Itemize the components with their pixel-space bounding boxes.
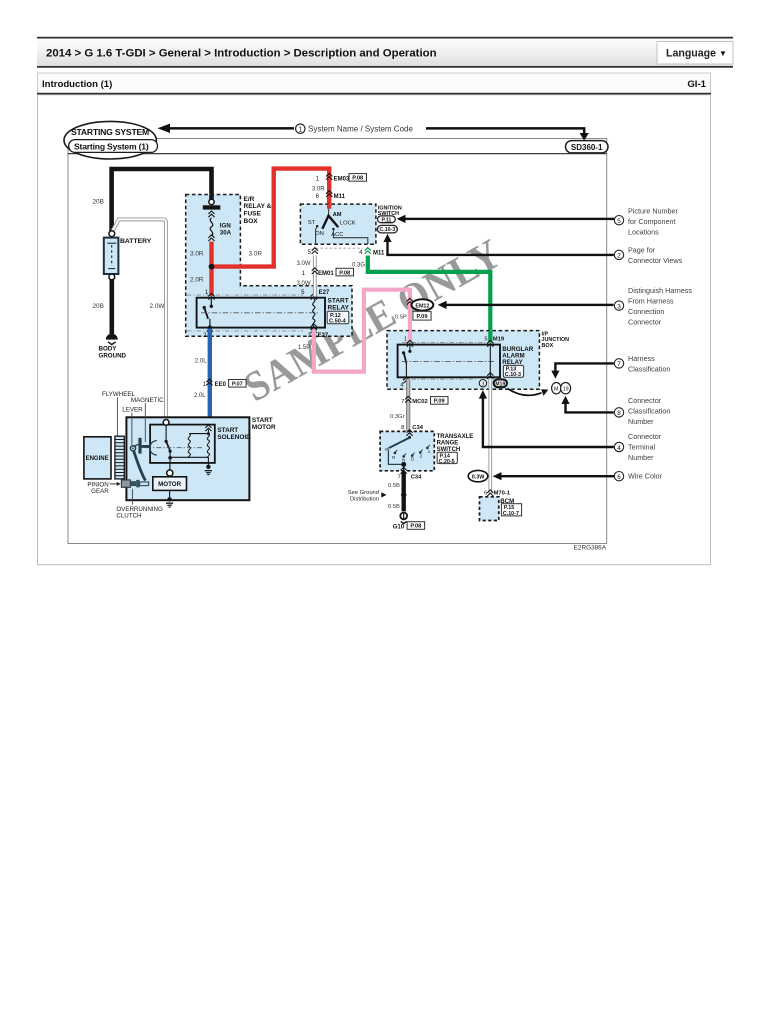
svg-text:3.0R: 3.0R: [190, 251, 204, 258]
svg-text:C34: C34: [411, 474, 422, 480]
svg-text:Connector: Connector: [628, 432, 662, 441]
svg-text:C.10-7: C.10-7: [503, 511, 519, 517]
svg-text:CLUTCH: CLUTCH: [116, 513, 141, 520]
svg-text:20B: 20B: [93, 199, 104, 206]
callout 5 circle: [614, 216, 623, 225]
svg-text:LEVER: LEVER: [122, 407, 143, 414]
junction node: [209, 264, 215, 270]
callout 8 circle: [614, 408, 623, 417]
relay BURGLAR ALARM RELAY box: [398, 345, 500, 378]
callout 5: picture number leader: [405, 218, 615, 220]
contacts ST LOCK ACC: [316, 225, 318, 227]
relay internal dash-dot line: [201, 312, 318, 314]
label box P.14 C.20-5: [437, 452, 457, 463]
ignition connector row (dashed gray): [316, 247, 363, 249]
solenoid contact from 2.0W: [163, 420, 169, 426]
svg-text:EM03: EM03: [334, 176, 350, 182]
wire 2.0W battery to start motor (white): [113, 219, 166, 419]
node 1 circle: [296, 124, 305, 133]
svg-text:2.0W: 2.0W: [150, 303, 166, 310]
inner diagram frame: [68, 139, 607, 544]
svg-text:EE0: EE0: [215, 382, 227, 388]
svg-text:Terminal: Terminal: [628, 443, 656, 452]
svg-text:BOX: BOX: [244, 218, 259, 225]
svg-text:Distribution: Distribution: [350, 497, 379, 503]
wire color oval 0.3W: [468, 470, 488, 481]
arrow to SD360-1: [426, 128, 584, 134]
svg-text:20B: 20B: [93, 303, 104, 310]
svg-text:Classification: Classification: [628, 365, 670, 374]
svg-text:2.0L: 2.0L: [195, 358, 207, 364]
svg-text:7: 7: [401, 399, 404, 405]
svg-text:START: START: [252, 417, 273, 424]
label OVERRUNNING CLUTCH + leader: [131, 489, 133, 505]
svg-text:M19: M19: [495, 381, 505, 387]
connector row dashes (burglar relay): [402, 341, 489, 343]
svg-text:P.08: P.08: [339, 270, 350, 276]
svg-text:0.5P: 0.5P: [395, 315, 407, 321]
svg-text:AM: AM: [333, 212, 342, 218]
svg-text:Connection: Connection: [628, 307, 664, 316]
svg-text:C.50-4: C.50-4: [329, 319, 347, 325]
svg-text:P.07: P.07: [232, 382, 243, 388]
svg-text:1: 1: [404, 337, 407, 343]
svg-text:Number: Number: [628, 417, 654, 426]
svg-text:Classification: Classification: [628, 407, 670, 416]
svg-text:EM12: EM12: [415, 303, 429, 309]
svg-text:C34: C34: [412, 425, 423, 431]
pinion gear: [121, 480, 130, 487]
svg-text:30A: 30A: [220, 229, 232, 236]
magnetic lever: [130, 446, 135, 451]
svg-text:1: 1: [298, 127, 302, 134]
ground G10 symbol: [400, 513, 407, 520]
svg-text:Connector: Connector: [628, 318, 662, 327]
pin chevron burglar pin1: [407, 340, 413, 346]
wire stub red into ignition switch: [327, 204, 331, 208]
svg-text:ST: ST: [308, 220, 316, 226]
pin 3 circled (terminal number highlight): [479, 380, 486, 387]
breadcrumb bar: [37, 38, 733, 67]
svg-text:P.08: P.08: [410, 524, 421, 530]
solenoid plunger: [138, 438, 141, 454]
svg-text:E/R: E/R: [244, 196, 255, 203]
ST wire to pin 5: [316, 227, 318, 245]
pin 6 M70-1: [487, 490, 493, 496]
wire 2.0L start relay pin2 to start solenoid (blue): [208, 329, 212, 427]
svg-text:EM01: EM01: [318, 271, 334, 277]
svg-text:8: 8: [617, 410, 621, 417]
svg-text:RELAY: RELAY: [328, 305, 350, 312]
svg-text:TRANSAXLE: TRANSAXLE: [437, 434, 474, 440]
solenoid dash-dot axis: [146, 447, 204, 449]
overrunning clutch parts: [130, 481, 136, 486]
motor ground: [169, 490, 171, 497]
callout 7: harness classification leader: [555, 363, 613, 371]
label box P.13 C.10-3: [503, 365, 523, 377]
svg-text:MOTOR: MOTOR: [252, 424, 276, 431]
ignition switch box (dashed): [300, 204, 376, 244]
burglar alarm relay box (dashed, I/P junction box): [387, 331, 539, 390]
motor MOTOR box: [153, 477, 187, 491]
svg-text:Locations: Locations: [628, 227, 659, 236]
ground distribution junction: [401, 492, 406, 497]
wire 3.0W ignition ST to relay coil (white): [313, 256, 317, 297]
svg-text:2014 > G 1.6 T-GDI > General >: 2014 > G 1.6 T-GDI > General > Introduct…: [46, 48, 437, 60]
oval SD360-1: [566, 141, 609, 153]
flywheel gear: [115, 436, 124, 479]
callout 3: distinguish harness leader: [446, 304, 614, 306]
label box P.15 C.10-7: [501, 504, 521, 516]
svg-text:P.08: P.08: [352, 176, 363, 182]
solenoid ground: [207, 457, 209, 464]
wire 20B battery(+) to IGN fuse (black thick): [112, 169, 212, 232]
svg-text:GI-1: GI-1: [687, 79, 706, 90]
svg-text:2: 2: [617, 253, 621, 260]
svg-text:LOCK: LOCK: [340, 221, 356, 227]
svg-text:G10: G10: [393, 524, 405, 530]
wire 3.0R fuse junction to ignition switch (red): [212, 169, 330, 267]
svg-text:3.0R: 3.0R: [312, 186, 325, 192]
harness classification ellipses M 19: [552, 383, 561, 394]
svg-text:M: M: [554, 387, 559, 393]
solenoid START SOLENOID box: [150, 425, 215, 463]
svg-text:M11: M11: [373, 250, 385, 256]
svg-text:E2RG386A: E2RG386A: [574, 545, 607, 552]
svg-text:4: 4: [617, 445, 621, 452]
svg-text:Connector: Connector: [628, 396, 662, 405]
svg-text:P.09: P.09: [434, 399, 445, 405]
solenoid coils: [207, 430, 209, 434]
transaxle range switch box (dashed): [380, 431, 434, 470]
svg-text:D: D: [411, 457, 415, 463]
relay internal dash-dot: [402, 361, 494, 363]
pin 7 C34: [401, 467, 407, 473]
motor START MOTOR box: [126, 417, 249, 500]
svg-text:BOX: BOX: [542, 343, 554, 349]
svg-text:Number: Number: [628, 453, 654, 462]
svg-text:0.3W: 0.3W: [472, 475, 485, 481]
svg-text:3.0W: 3.0W: [297, 261, 311, 267]
lever AM-ST: [322, 216, 328, 229]
wire 0.3W burglar relay pin3 to BCM (white): [488, 379, 492, 493]
relay coil side wire: [489, 345, 491, 377]
svg-text:5: 5: [617, 218, 621, 225]
ignition internal: AM node: [328, 205, 330, 216]
body ground symbol: [106, 334, 118, 340]
wire stub green into burglar relay: [488, 331, 492, 343]
language button: [657, 42, 733, 65]
svg-text:1.5P: 1.5P: [298, 345, 310, 351]
svg-text:Picture Number: Picture Number: [628, 206, 679, 215]
wire 0.3G ignition pin4 to burglar alarm relay (green): [368, 256, 491, 343]
connector EM12 (harness connection) on pink wire: [407, 298, 413, 304]
svg-text:7: 7: [397, 474, 400, 480]
svg-text:1: 1: [428, 449, 431, 455]
svg-text:Harness: Harness: [628, 354, 655, 363]
C.10-3 stadium: [378, 225, 398, 233]
wire 3.0R/2.0R fuse to start relay (red): [209, 242, 213, 297]
battery bottom terminal: [109, 274, 115, 280]
label box P.12 C.50-4: [327, 311, 349, 323]
callout 4: connector terminal number leader: [483, 398, 614, 447]
svg-text:ENGINE: ENGINE: [86, 456, 109, 462]
callout 4 circle: [614, 442, 623, 451]
svg-text:RELAY &: RELAY &: [244, 203, 272, 210]
svg-text:0.5B: 0.5B: [388, 483, 400, 489]
wire 0.3Gr burglar relay pin4 to transaxle switch (gray): [406, 379, 410, 431]
curved arrow M19 to harness ellipses: [508, 389, 542, 396]
svg-text:SD360-1: SD360-1: [571, 143, 603, 152]
svg-text:5: 5: [484, 337, 487, 343]
svg-text:3.0R: 3.0R: [249, 251, 263, 258]
svg-text:GEAR: GEAR: [91, 488, 109, 495]
svg-text:M11: M11: [334, 194, 346, 200]
svg-text:MC02: MC02: [412, 399, 427, 405]
svg-text:C.10-3: C.10-3: [505, 372, 521, 378]
svg-text:0.3G: 0.3G: [352, 262, 365, 268]
svg-text:Starting System (1): Starting System (1): [74, 142, 149, 152]
lever AM-LOCK: [329, 216, 338, 226]
svg-text:ON: ON: [315, 231, 324, 237]
wire 1.5P start relay pin3 to burglar relay pin1 (pink): [314, 290, 410, 372]
E/R relay &amp; fuse box (dashed): [186, 195, 352, 337]
svg-text:Distinguish Harness: Distinguish Harness: [628, 286, 692, 295]
svg-text:6: 6: [484, 491, 487, 497]
svg-text:START: START: [217, 427, 238, 434]
svg-text:C.10-3: C.10-3: [379, 227, 395, 233]
callout arrow to system name: [158, 124, 171, 133]
svg-text:8: 8: [401, 425, 404, 431]
ACC wire to pin 4: [333, 230, 367, 245]
position contacts P R N D 2 1: [394, 452, 397, 455]
svg-text:System Name / System Code: System Name / System Code: [308, 125, 413, 134]
svg-text:RANGE: RANGE: [437, 441, 459, 447]
svg-text:7: 7: [617, 361, 621, 368]
callout 2: page for connector views leader: [388, 240, 614, 255]
svg-text:P.11: P.11: [381, 217, 391, 223]
svg-text:Wire Color: Wire Color: [628, 472, 663, 481]
content box: [38, 95, 711, 565]
svg-text:SOLENOID: SOLENOID: [217, 434, 251, 441]
callout 7 circle: [614, 359, 623, 368]
svg-text:FUSE: FUSE: [244, 211, 262, 218]
svg-text:See Ground: See Ground: [348, 490, 379, 496]
callout 2 circle: [614, 250, 623, 259]
P.11 stadium: [378, 216, 396, 223]
svg-text:MOTOR: MOTOR: [158, 481, 181, 488]
engine ENGINE box: [84, 437, 111, 479]
svg-text:3.0W: 3.0W: [297, 281, 311, 287]
blue pin into solenoid: [205, 425, 211, 431]
svg-text:2.0R: 2.0R: [190, 277, 204, 284]
svg-text:2: 2: [420, 454, 423, 460]
fuse IGN 30A: [209, 199, 214, 204]
svg-text:E27: E27: [318, 333, 329, 339]
connector M19 stadium (dark): [494, 379, 507, 387]
svg-text:▼: ▼: [719, 49, 727, 58]
svg-text:From Harness: From Harness: [628, 297, 674, 306]
P contact path to output: [388, 450, 403, 465]
svg-text:GROUND: GROUND: [99, 352, 127, 359]
wire 0.5B to ground G10 (black): [402, 472, 406, 512]
svg-text:3: 3: [481, 382, 484, 388]
svg-text:6: 6: [617, 474, 621, 481]
motor terminal: [167, 470, 173, 476]
svg-text:STARTING SYSTEM: STARTING SYSTEM: [71, 127, 149, 137]
svg-text:C.20-5: C.20-5: [439, 459, 455, 465]
relay contact: [210, 298, 212, 306]
pin chevron burglar pin5: [487, 340, 493, 346]
svg-text:0.3Gr: 0.3Gr: [390, 414, 405, 420]
svg-text:R: R: [392, 455, 396, 461]
oval Starting System (1): [69, 140, 158, 153]
wire 20B battery(-) to body ground (black thick): [110, 280, 115, 334]
section bar: [38, 73, 711, 95]
switch lever: [408, 436, 411, 439]
svg-text:BATTERY: BATTERY: [120, 238, 152, 245]
svg-text:Connector Views: Connector Views: [628, 256, 683, 265]
module BCM box (dashed): [480, 497, 499, 521]
battery BATTERY: [104, 238, 119, 274]
svg-text:IGN: IGN: [220, 222, 232, 229]
svg-text:MAGNETIC: MAGNETIC: [131, 397, 164, 404]
svg-text:for Component: for Component: [628, 217, 676, 226]
callout 6 circle: [614, 472, 623, 481]
svg-text:E27: E27: [319, 290, 330, 296]
callout 8: connector classification leader: [566, 403, 614, 412]
svg-text:0.5B: 0.5B: [388, 504, 400, 510]
callout 3 circle: [614, 301, 623, 310]
svg-text:START: START: [328, 298, 349, 305]
svg-text:Introduction (1): Introduction (1): [42, 79, 112, 90]
start relay connector row (dash-dot): [187, 294, 303, 296]
callout 6: wire color leader: [501, 475, 615, 477]
svg-text:3: 3: [617, 303, 621, 310]
battery top terminal: [109, 231, 115, 237]
relay contact: [409, 345, 411, 351]
svg-text:P.09: P.09: [417, 314, 428, 320]
svg-text:Language: Language: [666, 48, 716, 60]
svg-text:Page for: Page for: [628, 246, 656, 255]
svg-text:M70-1: M70-1: [494, 491, 511, 497]
oval STARTING SYSTEM: [64, 121, 156, 159]
wire stub pink into burglar relay: [408, 331, 412, 343]
title strip line: [68, 153, 607, 155]
wire stub black into E/R box: [209, 195, 214, 200]
svg-text:19: 19: [563, 387, 569, 393]
relay coil: [311, 293, 317, 299]
svg-text:2.0L: 2.0L: [194, 393, 206, 399]
relay START RELAY box: [197, 298, 325, 328]
svg-text:M19: M19: [493, 337, 505, 343]
